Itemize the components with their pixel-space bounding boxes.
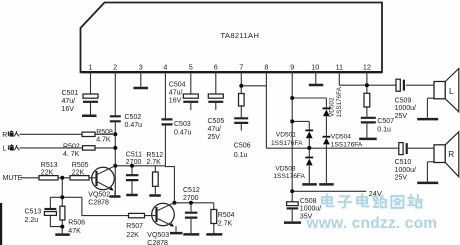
svg-text:47K: 47K xyxy=(68,228,81,235)
svg-text:C513: C513 xyxy=(25,209,42,216)
svg-text:6: 6 xyxy=(214,63,218,72)
svg-text:C502: C502 xyxy=(125,114,142,121)
svg-text:12: 12 xyxy=(363,63,371,72)
svg-text:2700: 2700 xyxy=(183,195,199,202)
svg-text:4. 7K: 4. 7K xyxy=(63,151,80,158)
svg-text:VQ502: VQ502 xyxy=(88,192,110,199)
svg-text:47u/: 47u/ xyxy=(208,126,222,133)
svg-text:4.7K: 4.7K xyxy=(96,137,111,144)
svg-text:C510: C510 xyxy=(395,159,412,166)
svg-text:47u/: 47u/ xyxy=(169,90,183,97)
svg-text:0.47u: 0.47u xyxy=(125,122,143,129)
svg-text:C511: C511 xyxy=(126,152,142,159)
svg-text:1: 1 xyxy=(89,63,93,72)
svg-text:10: 10 xyxy=(311,63,319,72)
svg-text:R506: R506 xyxy=(68,220,85,227)
svg-text:C504: C504 xyxy=(169,82,186,89)
svg-text:25V: 25V xyxy=(208,134,221,141)
svg-text:VQ503: VQ503 xyxy=(147,232,169,239)
svg-text:2: 2 xyxy=(113,63,117,72)
svg-text:2.7K: 2.7K xyxy=(218,221,233,228)
svg-text:MUTE: MUTE xyxy=(3,175,23,182)
svg-text:C506: C506 xyxy=(234,143,251,150)
svg-text:R505: R505 xyxy=(72,162,89,169)
svg-text:VD503: VD503 xyxy=(275,166,295,173)
svg-text:L: L xyxy=(3,145,7,152)
svg-text:C503: C503 xyxy=(174,121,191,128)
svg-text:9: 9 xyxy=(290,63,294,72)
svg-text:1SS176FA: 1SS176FA xyxy=(273,173,305,180)
svg-text:R: R xyxy=(448,150,454,159)
svg-text:C509: C509 xyxy=(395,97,412,104)
svg-text:47u/: 47u/ xyxy=(62,98,76,105)
svg-text:C501: C501 xyxy=(62,90,79,97)
svg-text:22K: 22K xyxy=(126,232,139,239)
svg-text:1SS176FA: 1SS176FA xyxy=(336,86,343,117)
svg-text:R507: R507 xyxy=(126,223,143,230)
svg-text:2.7K: 2.7K xyxy=(146,159,161,166)
svg-text:1SS176FA: 1SS176FA xyxy=(331,141,363,148)
svg-text:TA8211AH: TA8211AH xyxy=(221,31,260,40)
svg-text:16V: 16V xyxy=(169,98,182,105)
svg-text:C2878: C2878 xyxy=(88,199,109,206)
svg-text:C507: C507 xyxy=(377,118,394,125)
svg-text:1000u/: 1000u/ xyxy=(300,206,321,213)
svg-text:R502: R502 xyxy=(63,143,80,150)
svg-text:25V: 25V xyxy=(395,113,408,120)
svg-text:R513: R513 xyxy=(41,162,58,169)
svg-text:22K: 22K xyxy=(41,169,54,176)
svg-text:16V: 16V xyxy=(62,106,75,113)
svg-text:25V: 25V xyxy=(395,175,408,182)
svg-text:L: L xyxy=(449,87,454,96)
svg-text:11: 11 xyxy=(336,63,343,72)
svg-text:8: 8 xyxy=(264,63,268,72)
svg-text:1000u/: 1000u/ xyxy=(395,167,416,174)
svg-text:C505: C505 xyxy=(208,118,225,125)
svg-text:0.1u: 0.1u xyxy=(234,152,248,159)
svg-text:C508: C508 xyxy=(300,198,317,205)
svg-text:R504: R504 xyxy=(218,212,235,219)
svg-text:1SS176FA: 1SS176FA xyxy=(271,140,303,147)
svg-text:C512: C512 xyxy=(183,187,200,194)
svg-text:4: 4 xyxy=(163,63,167,72)
svg-text:C2878: C2878 xyxy=(147,240,168,245)
svg-text:VD502: VD502 xyxy=(328,97,335,117)
svg-text:1000u/: 1000u/ xyxy=(395,105,416,112)
svg-text:2700: 2700 xyxy=(126,159,142,166)
svg-text:22K: 22K xyxy=(72,169,85,176)
svg-text:VD501: VD501 xyxy=(276,132,296,139)
svg-text:www. cndzz. com: www. cndzz. com xyxy=(306,215,438,232)
svg-text:2.2u: 2.2u xyxy=(25,217,39,224)
svg-text:7: 7 xyxy=(239,63,243,72)
svg-text:R508: R508 xyxy=(96,129,113,136)
svg-text:0.47u: 0.47u xyxy=(174,130,192,137)
svg-text:VD504: VD504 xyxy=(331,133,351,140)
svg-text:3: 3 xyxy=(139,63,143,72)
svg-text:0.1u: 0.1u xyxy=(377,126,391,133)
svg-text:R: R xyxy=(2,132,7,139)
svg-text:5: 5 xyxy=(189,63,193,72)
